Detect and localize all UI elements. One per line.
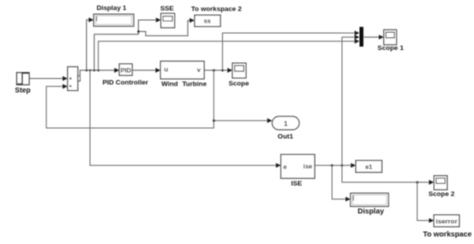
svg-text:Scope: Scope <box>229 81 250 88</box>
svg-text:Scope 2: Scope 2 <box>428 191 454 198</box>
svg-text:Wind Turbine: Wind Turbine <box>161 81 206 88</box>
wire to iserror workspace <box>417 182 434 223</box>
svg-text:To workspace 2: To workspace 2 <box>191 6 242 13</box>
mux Mux1 <box>360 27 364 47</box>
wire PID to Wind Turbine <box>132 68 160 73</box>
block To workspace 2 (ss) <box>191 6 242 27</box>
svg-text:Out1: Out1 <box>278 133 294 140</box>
svg-text:Display: Display <box>358 207 385 216</box>
svg-text:PID Controller: PID Controller <box>102 80 148 87</box>
svg-text:iserror: iserror <box>436 219 458 226</box>
wire error to mux input 3 (long) <box>98 39 359 71</box>
block e1 <box>356 161 382 173</box>
block Display1 <box>94 5 134 26</box>
wire error up to SSE and ss <box>94 18 194 71</box>
outport Out1 <box>272 116 299 140</box>
block Scope 2 <box>428 176 454 198</box>
block Scope <box>229 63 250 87</box>
block SSE (display) <box>160 6 174 28</box>
block Step <box>15 73 31 95</box>
block Wind Turbine <box>161 61 207 88</box>
sum block Sum1 <box>68 67 80 91</box>
wire Sum output to PID (error node e) <box>80 68 119 79</box>
svg-text:SSE: SSE <box>160 6 174 13</box>
wire Wind Turbine output up to mux input 1 <box>223 31 360 71</box>
svg-text:To workspace: To workspace <box>423 229 472 238</box>
svg-text:Step: Step <box>15 86 31 95</box>
svg-text:e: e <box>283 164 287 171</box>
wire ISE output to e1 with junctions <box>315 163 356 168</box>
svg-text:PID: PID <box>120 67 131 74</box>
wire error down to ISE input <box>90 70 281 168</box>
block Scope 1 <box>378 30 404 52</box>
wire ise vertical to mux input 2 and down to Scope 2 row <box>342 35 434 185</box>
block ISE <box>281 155 315 188</box>
wire feedback loop to Sum input 2 <box>46 70 214 128</box>
wire error up to Display1 <box>87 18 94 71</box>
svg-text:1: 1 <box>284 119 288 128</box>
block To workspace (iserror) <box>423 215 472 239</box>
wire Wind Turbine to Scope with junctions <box>204 68 232 73</box>
svg-text:ISE: ISE <box>291 181 302 188</box>
svg-text:ise: ise <box>303 164 312 171</box>
svg-text:Scope 1: Scope 1 <box>378 45 404 52</box>
svg-text:v: v <box>197 67 201 74</box>
svg-text:Display 1: Display 1 <box>97 5 127 12</box>
svg-text:e1: e1 <box>365 164 373 171</box>
block Display <box>351 193 389 216</box>
wire Step to Sum <box>29 76 67 81</box>
wire Mux to Scope 1 <box>363 35 383 40</box>
svg-text:ss: ss <box>204 18 212 25</box>
wire branch to Out1 <box>213 118 272 123</box>
wire ise branch down to Display <box>332 165 351 201</box>
svg-text:u: u <box>164 67 168 74</box>
block PID Controller <box>102 64 148 87</box>
